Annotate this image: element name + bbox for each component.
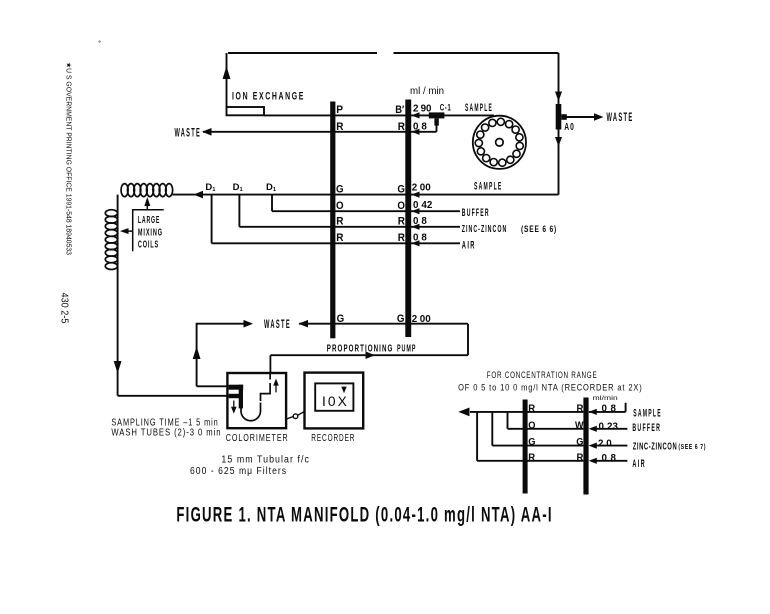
label SAMPLING TIME — [111, 417, 218, 428]
svg-text:G: G — [397, 183, 405, 195]
pump tube letter G row3 left — [336, 183, 344, 195]
label 600-625 filters — [190, 466, 287, 477]
label 10X — [322, 394, 349, 409]
svg-text:(SEE 6 7): (SEE 6 7) — [678, 442, 706, 451]
wire flowcell waste riser — [197, 324, 245, 387]
margin note gpo line rotated — [65, 62, 73, 255]
flow arrow right on colorimeter outlet line — [366, 351, 376, 359]
label ml/min top — [410, 86, 444, 97]
label SEE 6 6 — [521, 224, 557, 235]
figure caption — [176, 504, 552, 527]
flow value 0 8 row5 — [413, 216, 427, 227]
fitting A0 — [556, 104, 567, 130]
svg-text:08: 08 — [602, 453, 617, 464]
svg-text:SAMPLE: SAMPLE — [474, 180, 503, 192]
label SAMPLE middle — [474, 180, 503, 192]
svg-text:COLORIMETER: COLORIMETER — [226, 432, 289, 444]
pump tube letter G row3 right — [397, 183, 405, 195]
svg-text:G: G — [336, 183, 344, 195]
wire row6 R air line — [212, 242, 460, 244]
label RECORDER — [311, 432, 355, 444]
label ml/min inset — [593, 395, 618, 402]
large mixing coils callout bracket — [123, 200, 164, 252]
svg-text:COILS: COILS — [138, 240, 159, 251]
svg-text:042: 042 — [413, 200, 433, 211]
wire sample feed into colorimeter — [118, 395, 228, 397]
inset tube letter R row4 right — [577, 451, 584, 463]
inset tube letter W row2 right — [575, 419, 584, 431]
svg-text:R: R — [336, 121, 343, 133]
svg-text:MIXING: MIXING — [138, 227, 163, 238]
svg-text:ml/min: ml/min — [593, 395, 618, 402]
pump tube letter O row4 left — [336, 200, 344, 212]
wire waste riser to colorimeter — [197, 385, 228, 387]
flow arrow left into coils — [194, 191, 204, 199]
svg-text:C-1: C-1 — [440, 103, 452, 114]
svg-text:G: G — [337, 313, 345, 325]
label AIR — [462, 239, 476, 251]
svg-text:R: R — [336, 216, 343, 228]
svg-text:BUFFER: BUFFER — [462, 207, 490, 219]
flow arrow up on waste riser — [193, 347, 201, 360]
fitting C-1 — [429, 112, 445, 125]
flow arrows left at right platen rows — [411, 112, 419, 246]
svg-text:023: 023 — [599, 422, 619, 433]
label OF 0 5 to 10 0 mg/l NTA — [458, 383, 642, 393]
svg-text:(SEE 6 6): (SEE 6 6) — [521, 224, 557, 235]
svg-text:SAMPLE: SAMPLE — [465, 102, 493, 114]
svg-text:AIR: AIR — [632, 458, 646, 470]
svg-text:WASTE: WASTE — [264, 319, 291, 331]
pump tube letter G bottom right — [397, 313, 405, 325]
flow value 0 8 row2 — [413, 122, 427, 133]
colorimeter outlet line to pump — [269, 355, 271, 373]
svg-text:SAMPLE: SAMPLE — [633, 407, 662, 419]
stray scan mark top left — [98, 40, 101, 43]
flowcell vertical thick tube — [239, 385, 243, 409]
svg-text:200: 200 — [412, 183, 431, 194]
wire bottom pump G row — [271, 324, 469, 356]
label D1 first — [205, 182, 216, 193]
svg-text:PROPORTIONING: PROPORTIONING — [327, 343, 394, 355]
callout arrow up at horizontal coil — [144, 197, 150, 206]
flow value 0 8 row6 — [413, 233, 427, 244]
svg-text:D1: D1 — [266, 182, 277, 193]
svg-text:290: 290 — [413, 104, 432, 115]
pump tube letter G bottom left — [337, 313, 345, 325]
svg-text:OF 0 5 to 10 0 mg/l NTA (R: OF 0 5 to 10 0 mg/l NTA (RECORDER at 2X) — [458, 383, 642, 393]
flow arrow up on left riser — [223, 66, 231, 79]
svg-text:AIR: AIR — [462, 239, 476, 251]
svg-text:R: R — [398, 232, 405, 244]
label WASTE center — [264, 319, 291, 331]
svg-text:20: 20 — [598, 438, 612, 449]
horizontal mixing coil — [121, 184, 173, 197]
inset flow arrows at right platen — [589, 409, 597, 464]
sampler tray center hub — [496, 139, 504, 147]
wire left main down line — [117, 195, 119, 396]
svg-text:200: 200 — [412, 314, 431, 325]
recorder inner panel — [315, 383, 353, 410]
inset label SAMPLE — [633, 407, 662, 419]
flow arrow right to WASTE top — [594, 113, 604, 121]
svg-text:★U S GOVERNMENT PRINTING OFFI: ★U S GOVERNMENT PRINTING OFFICE 1991-548… — [65, 62, 73, 255]
label C-1 — [440, 103, 452, 114]
flow value 2 00 bottom — [412, 314, 431, 325]
svg-text:600 - 625 mμ Filters: 600 - 625 mμ Filters — [190, 466, 287, 477]
inset wire row2 buffer — [508, 412, 628, 429]
label WASTE top right — [607, 112, 634, 124]
wire A0 to waste — [566, 116, 595, 118]
flow arrow left into WASTE left — [202, 128, 212, 136]
flow value 2 00 row3 — [412, 183, 431, 194]
sampler tray cup ring — [475, 118, 523, 166]
svg-text:ZINC-ZINCON: ZINC-ZINCON — [462, 223, 508, 235]
inset tube letter R row1 right — [577, 403, 584, 415]
pump platen bar right — [405, 100, 411, 338]
label WASH TUBES — [111, 428, 221, 439]
margin note 430 2-5 rotated — [59, 293, 70, 324]
svg-text:WASH TUBES (2)-3 0 min: WASH TUBES (2)-3 0 min — [111, 428, 221, 439]
wire D1 stem to zinc row — [238, 195, 240, 227]
flow arrow down below A0 — [555, 137, 562, 147]
label D1 third — [266, 182, 277, 193]
pump tube letter R row5 right — [398, 216, 405, 228]
inset label BUFFER — [632, 422, 661, 434]
svg-text:D1: D1 — [233, 182, 244, 193]
svg-text:430 2-5: 430 2-5 — [59, 293, 70, 324]
pump tube letter O row4 right — [397, 200, 405, 212]
flow value 0 42 — [413, 200, 433, 211]
svg-text:15 mm Tubular f/c: 15 mm Tubular f/c — [221, 455, 310, 466]
pump tube letter R row2 right — [398, 121, 405, 133]
wire row3 G sample line — [194, 194, 559, 196]
flowcell inlet lower thick bar — [229, 394, 240, 398]
pump tube letter R row6 right — [398, 232, 405, 244]
wire row1 P/B' line — [264, 114, 494, 116]
inset wire row1 sample — [470, 403, 626, 412]
label D1 second — [233, 182, 244, 193]
svg-text:R: R — [398, 121, 405, 133]
inset platen bar left — [523, 400, 528, 494]
label PROPORTIONING PUMP — [327, 343, 417, 355]
flow arrow down above A0 — [555, 92, 562, 102]
pump tube letter P — [336, 104, 343, 116]
wire left riser to top — [226, 53, 228, 107]
recorder box — [305, 373, 364, 429]
label A0 — [564, 121, 575, 133]
svg-text:O: O — [336, 200, 344, 212]
flow arrow left bottom G row to WASTE — [299, 320, 309, 328]
wire top manifold run — [228, 52, 559, 54]
svg-text:LARGE: LARGE — [138, 215, 160, 226]
vertical mixing coil — [105, 210, 117, 270]
flowcell riser with gaps — [261, 373, 271, 401]
label COLORIMETER — [226, 432, 289, 444]
inset flow arrow left end — [458, 408, 469, 417]
label ZINC-ZINCON — [462, 223, 508, 235]
label BUFFER — [462, 207, 490, 219]
svg-text:G: G — [576, 436, 583, 448]
flowcell U tube — [241, 403, 261, 421]
svg-text:P: P — [336, 104, 343, 116]
inset label AIR — [632, 458, 646, 470]
recorder cable and connector — [286, 412, 305, 420]
wire D1 stem to O row — [271, 195, 273, 212]
callout arrow left at vertical coil — [120, 228, 129, 234]
wire right riser — [558, 53, 560, 195]
inset tube letter O row2 left — [528, 419, 535, 431]
wire coil outlet to arrow — [173, 194, 194, 196]
label LARGE MIXING COILS — [138, 215, 163, 251]
inset value 0 8 row1 — [602, 404, 617, 415]
inset platen bar right — [583, 398, 588, 495]
inset value 0 23 row2 — [599, 422, 619, 433]
svg-text:WASTE: WASTE — [175, 128, 202, 140]
svg-text:R: R — [577, 403, 584, 415]
svg-text:I0X: I0X — [322, 394, 349, 409]
inset tube letter R row1 left — [528, 403, 535, 415]
svg-text:B′: B′ — [395, 104, 404, 116]
svg-text:WASTE: WASTE — [607, 112, 634, 124]
svg-text:G: G — [397, 313, 405, 325]
svg-text:R: R — [528, 451, 535, 463]
inset wire row3 zinc — [492, 412, 627, 446]
svg-text:ION EXCHANGE: ION EXCHANGE — [232, 91, 305, 103]
pump tube letter R row5 left — [336, 216, 343, 228]
flow arrow right into WASTE center — [244, 320, 254, 328]
ion exchange column box — [227, 107, 265, 115]
svg-text:FIGURE 1. NTA MANIFOLD (0.04-1: FIGURE 1. NTA MANIFOLD (0.04-1.0 mg/l NT… — [176, 504, 552, 527]
svg-text:D1: D1 — [205, 182, 216, 193]
label ION EXCHANGE — [232, 91, 305, 103]
inset tube letter G row3 right — [576, 436, 583, 448]
wire row2 R waste line — [203, 131, 437, 133]
flow arrow up inside colorimeter — [275, 384, 277, 392]
flow arrow down on left line — [114, 361, 122, 374]
colorimeter box — [227, 373, 286, 428]
inset tube letter R row4 left — [528, 451, 535, 463]
svg-text:08: 08 — [413, 216, 427, 227]
flowcell inlet upper thick bar — [229, 385, 244, 390]
svg-text:R: R — [577, 451, 584, 463]
svg-text:ZINC-ZINCON: ZINC-ZINCON — [633, 442, 678, 453]
svg-text:08: 08 — [413, 233, 427, 244]
inset label ZINC-ZINCON — [633, 442, 678, 453]
svg-text:A0: A0 — [564, 121, 575, 133]
svg-text:RECORDER: RECORDER — [311, 432, 355, 444]
svg-text:O: O — [528, 419, 535, 431]
svg-text:O: O — [397, 200, 405, 212]
wire C-1 stem — [436, 124, 438, 132]
recorder pen marker triangle — [341, 387, 346, 394]
inset value 2 0 row3 — [598, 438, 612, 449]
wire row5 R zinc line — [239, 226, 460, 228]
svg-text:R: R — [528, 403, 535, 415]
svg-text:ml / min: ml / min — [410, 86, 444, 97]
inset label SEE 6 7 — [678, 442, 706, 451]
svg-text:FOR CONCENTRATION RANGE: FOR CONCENTRATION RANGE — [487, 370, 598, 380]
wire row4 O buffer line — [272, 210, 460, 212]
svg-text:R: R — [336, 232, 343, 244]
wire D1 stem to air row — [211, 195, 213, 244]
inset value 0 8 row4 — [602, 453, 617, 464]
pump tube letter B' — [395, 104, 404, 116]
flow arrow down inside colorimeter — [233, 401, 235, 410]
label WASTE left — [175, 128, 202, 140]
label SAMPLE top — [465, 102, 493, 114]
svg-text:BUFFER: BUFFER — [632, 422, 661, 434]
flow value 2 90 — [413, 104, 432, 115]
svg-text:08: 08 — [602, 404, 617, 415]
sampler tray outer circle — [473, 116, 526, 169]
svg-text:W: W — [575, 419, 584, 431]
svg-text:G: G — [528, 436, 535, 448]
label 15 mm Tubular f/c — [221, 455, 310, 466]
pump platen bar left — [330, 102, 335, 339]
inset tube letter G row3 left — [528, 436, 535, 448]
svg-text:PUMP: PUMP — [397, 343, 416, 355]
pump tube letter R row2 left — [336, 121, 343, 133]
svg-text:R: R — [398, 216, 405, 228]
label FOR CONCENTRATION RANGE — [487, 370, 598, 380]
inset wire row4 air — [477, 412, 627, 461]
pump tube letter R row6 left — [336, 232, 343, 244]
